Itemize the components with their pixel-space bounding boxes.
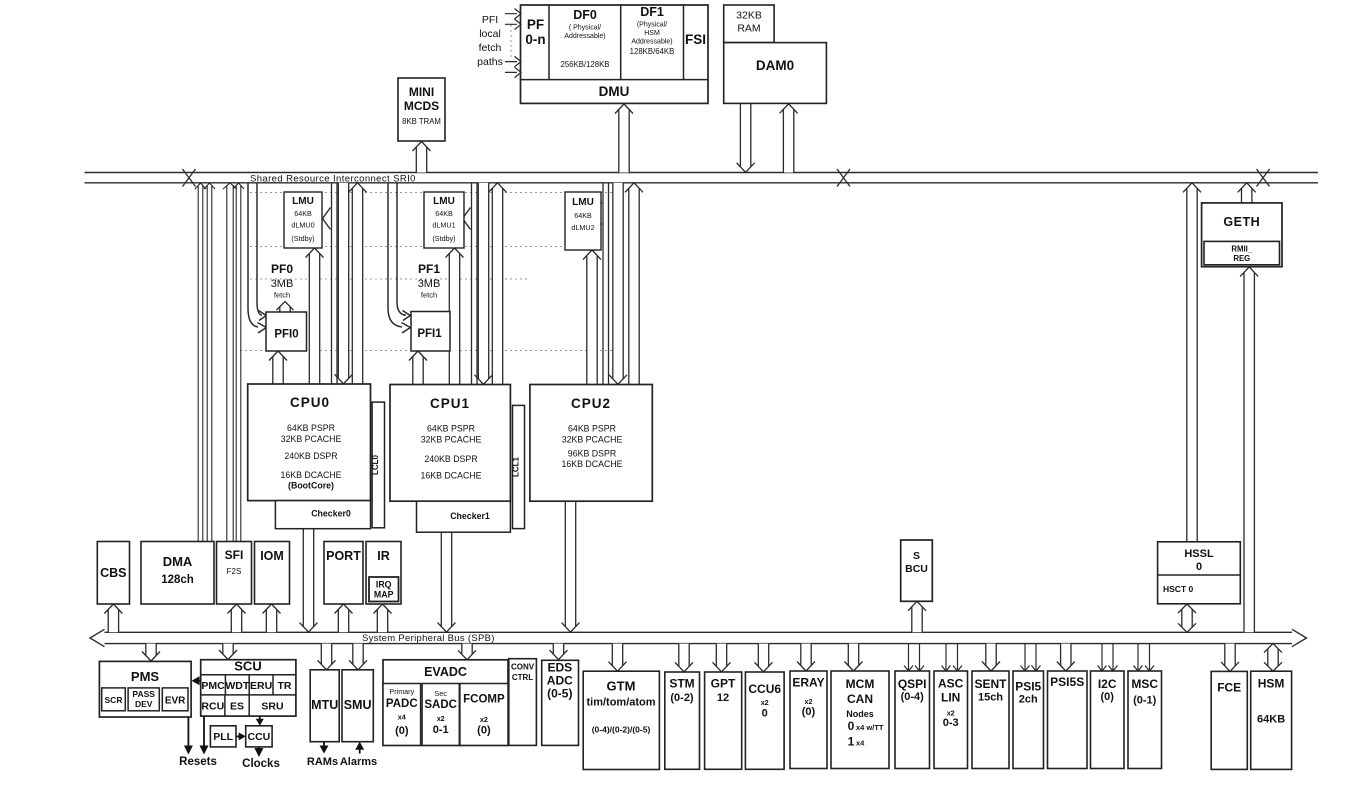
wire SRI to DMA b: [204, 183, 215, 543]
wire SPB to ASCLIN b: [953, 644, 962, 671]
svg-text:64KB: 64KB: [294, 209, 312, 218]
block SADC: [422, 684, 459, 746]
wire SRI to DMA a: [195, 183, 206, 543]
svg-text:16KB DCACHE: 16KB DCACHE: [420, 471, 481, 481]
svg-text:ERU: ERU: [250, 680, 272, 692]
svg-text:CCU6: CCU6: [748, 682, 781, 696]
svg-text:64KB: 64KB: [1257, 714, 1285, 726]
svg-text:WDT: WDT: [225, 680, 249, 692]
svg-text:HSM: HSM: [644, 30, 660, 37]
svg-text:32KB: 32KB: [736, 10, 762, 22]
svg-text:local: local: [479, 28, 501, 40]
svg-text:tim/tom/atom: tim/tom/atom: [586, 697, 655, 709]
svg-text:2ch: 2ch: [1019, 694, 1038, 706]
wire SRI to DAM0 (up): [780, 104, 798, 173]
svg-text:(0-1): (0-1): [1133, 695, 1157, 707]
bus crossing X left: [183, 169, 196, 187]
block ASCLIN: [934, 671, 968, 769]
bus SPB System Peripheral Bus: [90, 629, 1307, 646]
svg-text:Primary: Primary: [389, 687, 414, 696]
wire SPB to IOM: [263, 604, 281, 632]
block LMU2: [565, 192, 601, 250]
block IRQ MAP: [369, 577, 399, 602]
block QSPI: [895, 671, 930, 769]
dotted line LMU bottom: [250, 246, 565, 248]
svg-text:CBS: CBS: [100, 566, 126, 580]
svg-text:MINI: MINI: [409, 85, 434, 99]
wire SRI-LMU0 stub to CPU0: [332, 183, 338, 384]
svg-text:SENT: SENT: [974, 677, 1007, 691]
wire CPU1 to SRI (up): [489, 183, 507, 385]
svg-text:LIN: LIN: [941, 691, 960, 705]
svg-text:240KB DSPR: 240KB DSPR: [284, 451, 337, 461]
svg-text:MCDS: MCDS: [404, 99, 439, 113]
svg-text:LMU: LMU: [433, 196, 455, 207]
svg-text:0: 0: [848, 719, 855, 733]
block PADC: [383, 684, 421, 746]
wire SPB to SMU: [349, 644, 367, 670]
wire SPB to SCU: [219, 644, 237, 660]
block GPT12: [705, 672, 742, 769]
svg-text:64KB PSPR: 64KB PSPR: [427, 424, 475, 434]
wire SRI to CPU1 (down): [475, 183, 493, 384]
wire DAM0 to SRI (down): [737, 104, 755, 173]
svg-text:S: S: [913, 550, 920, 562]
svg-text:CPU1: CPU1: [430, 396, 470, 411]
svg-text:(Stdby): (Stdby): [432, 234, 455, 243]
block EDS ADC: [542, 660, 579, 745]
svg-text:PF0: PF0: [271, 262, 293, 276]
svg-text:CONV: CONV: [511, 663, 535, 672]
block SMU: [342, 670, 373, 742]
arrow Alarms SMU: [359, 748, 361, 754]
svg-text:CTRL: CTRL: [512, 673, 533, 682]
wire HSCT to SPB (double): [1178, 604, 1196, 632]
svg-text:EDS: EDS: [547, 661, 572, 675]
svg-text:FSI: FSI: [685, 32, 706, 47]
svg-text:PORT: PORT: [326, 549, 361, 563]
wire SRI to PFI0 (curved): [248, 183, 262, 327]
block PFI1: [411, 312, 450, 352]
block CONV CTRL: [509, 659, 537, 746]
svg-text:HSCT 0: HSCT 0: [1163, 584, 1194, 594]
wire SPB to I2C a: [1098, 644, 1107, 671]
svg-text:x4 w/TT: x4 w/TT: [856, 723, 884, 732]
arrow RCU resets: [203, 716, 205, 747]
wire SRI to PFI1 (curved): [388, 183, 406, 327]
block HSSL 0: [1158, 542, 1241, 604]
svg-text:(Stdby): (Stdby): [291, 234, 314, 243]
svg-text:PSI5S: PSI5S: [1050, 675, 1084, 689]
wire SPB to FCE: [1221, 644, 1239, 672]
svg-text:FCOMP: FCOMP: [463, 694, 505, 706]
svg-text:SCU: SCU: [234, 659, 261, 674]
wire stub arrow into LMU2: [594, 203, 602, 225]
svg-text:ES: ES: [230, 701, 244, 713]
wire SPB to IR: [374, 604, 392, 632]
svg-text:32KB PCACHE: 32KB PCACHE: [562, 435, 623, 445]
dotted line PFI bottom: [240, 350, 612, 352]
wire HSSL to SRI: [1183, 183, 1201, 542]
svg-text:DAM0: DAM0: [756, 58, 794, 73]
wire SPB to QSPI a: [904, 644, 913, 671]
svg-text:(0-2): (0-2): [670, 692, 694, 704]
dotted line PF row: [250, 278, 530, 280]
svg-text:LMU: LMU: [572, 197, 594, 208]
svg-text:0-n: 0-n: [525, 32, 545, 47]
svg-text:REG: REG: [1233, 254, 1250, 263]
svg-text:PF: PF: [527, 17, 544, 32]
svg-text:SRU: SRU: [261, 701, 283, 713]
svg-text:GETH: GETH: [1223, 215, 1260, 229]
wire SPB to EVADC: [458, 644, 476, 660]
block PMS: [99, 661, 191, 717]
svg-text:DF0: DF0: [573, 8, 597, 22]
svg-text:Sec: Sec: [435, 689, 448, 698]
wire PFI local fetch arrow 2: [505, 19, 521, 29]
svg-text:PMC: PMC: [201, 680, 225, 692]
wire SPB to CCU6: [755, 644, 773, 672]
svg-text:x2: x2: [437, 714, 445, 723]
svg-text:F2S: F2S: [227, 567, 242, 576]
svg-text:Shared Resource Interconnect: Shared Resource Interconnect SRI0: [250, 173, 416, 184]
wire SPB to HSM (double): [1264, 644, 1282, 672]
svg-text:MTU: MTU: [311, 698, 338, 712]
block PSI5: [1013, 671, 1044, 769]
svg-text:LCL1: LCL1: [512, 456, 521, 477]
svg-text:TR: TR: [278, 680, 292, 692]
wire SPB to GETH: [1240, 267, 1258, 632]
svg-text:fetch: fetch: [274, 291, 290, 300]
block LMU0: [284, 192, 322, 248]
svg-text:fetch: fetch: [421, 291, 437, 300]
svg-text:PFI: PFI: [482, 14, 498, 26]
wire SPB to PSI5 a: [1021, 644, 1030, 671]
svg-text:BCU: BCU: [905, 563, 928, 575]
svg-text:Addressable): Addressable): [631, 39, 672, 46]
svg-text:12: 12: [717, 692, 729, 704]
svg-text:32KB PCACHE: 32KB PCACHE: [421, 435, 482, 445]
wire DMU to SRI: [615, 104, 633, 173]
svg-text:SMU: SMU: [344, 698, 372, 712]
svg-text:(0-4)/(0-2)/(0-5): (0-4)/(0-2)/(0-5): [592, 725, 651, 735]
svg-text:MSC: MSC: [1131, 677, 1158, 691]
svg-text:SFI: SFI: [225, 548, 244, 562]
wire LMU0 to CPU0: [306, 248, 324, 384]
block 32KB RAM: [724, 5, 774, 43]
wire SPB to MTU: [318, 644, 336, 670]
svg-text:16KB DCACHE: 16KB DCACHE: [280, 470, 341, 480]
svg-text:( Physical/: ( Physical/: [569, 25, 601, 32]
block ERAY: [790, 671, 827, 769]
wire CPU0 to SRI (up): [349, 183, 367, 384]
arrow CCU clocks: [258, 747, 260, 750]
wire CPU1 to PFI1: [409, 351, 427, 385]
svg-text:FCE: FCE: [1217, 681, 1241, 695]
wire stub arrow into LMU1: [463, 208, 471, 230]
svg-text:ERAY: ERAY: [792, 676, 824, 690]
block HSM: [1251, 671, 1292, 769]
svg-text:0-1: 0-1: [433, 724, 449, 736]
svg-text:8KB TRAM: 8KB TRAM: [402, 117, 441, 126]
block DMU outer: [521, 5, 709, 103]
wire SPB to MCM CAN: [845, 644, 863, 671]
svg-text:Addressable): Addressable): [564, 33, 605, 40]
block FCE: [1211, 671, 1247, 769]
wire SPB to CBS: [104, 604, 122, 632]
wire SPB to GPT: [713, 644, 731, 672]
svg-text:PMS: PMS: [131, 669, 160, 684]
block Checker0: [275, 501, 370, 529]
svg-text:IRQ: IRQ: [376, 580, 392, 590]
svg-text:0: 0: [1196, 561, 1202, 573]
block MINI MCDS: [398, 78, 445, 141]
svg-text:PADC: PADC: [386, 698, 418, 710]
wire stub arrow into LMU0: [323, 208, 331, 230]
block IR: [366, 542, 401, 605]
wire SPB to MSC b: [1145, 644, 1154, 671]
wire SPB to MSC a: [1134, 644, 1143, 671]
svg-text:(0): (0): [477, 725, 491, 737]
svg-text:x2: x2: [761, 698, 769, 707]
svg-text:IOM: IOM: [260, 549, 284, 563]
wire CPU2 to SPB: [562, 501, 580, 632]
svg-text:DEV: DEV: [135, 699, 153, 709]
svg-text:256KB/128KB: 256KB/128KB: [561, 60, 610, 69]
block STM: [665, 672, 700, 769]
wire SPB to STM: [675, 644, 693, 672]
block CPU1: [390, 385, 510, 502]
block RMII REG sub-box: [1204, 241, 1280, 264]
wire CPU0 to PFI0: [269, 351, 287, 384]
svg-text:EVADC: EVADC: [424, 665, 467, 679]
svg-text:GPT: GPT: [711, 677, 736, 691]
wire Checker0 to SPB: [300, 529, 318, 632]
arrow MTU RAMs: [323, 742, 325, 748]
svg-text:Checker0: Checker0: [311, 509, 351, 519]
block EVR: [162, 688, 188, 711]
svg-text:fetch: fetch: [479, 42, 502, 54]
wire PFI0 fetch arrow: [277, 302, 294, 314]
svg-text:dLMU1: dLMU1: [432, 221, 455, 230]
svg-text:EVR: EVR: [165, 696, 186, 707]
block SENT: [972, 671, 1009, 769]
block LMU1: [424, 192, 464, 248]
arrow SCU to PMS: [198, 680, 201, 682]
wire SRI-LMU2 stub to CPU2: [603, 183, 609, 384]
block Checker1: [417, 501, 511, 532]
block PASS DEV: [128, 688, 159, 711]
wire SPB to I2C b: [1109, 644, 1118, 671]
svg-text:(0): (0): [1100, 691, 1114, 703]
wire SRI to SFI a: [223, 183, 237, 544]
svg-text:DF1: DF1: [640, 5, 664, 19]
block CPU2: [530, 385, 652, 502]
svg-text:Clocks: Clocks: [242, 758, 280, 770]
svg-text:(0-5): (0-5): [547, 687, 572, 701]
svg-text:ADC: ADC: [547, 674, 573, 688]
wire SRI to SFI b: [233, 183, 244, 544]
svg-text:LMU: LMU: [292, 196, 314, 207]
wire SRI to CPU2 (down): [609, 183, 627, 384]
dotted line PFI fetch path: [510, 25, 512, 58]
wire MINI MCDS to SRI: [413, 142, 431, 173]
block SFI: [217, 542, 252, 605]
svg-text:DMU: DMU: [599, 84, 630, 99]
svg-text:System Peripheral Bus (SPB): System Peripheral Bus (SPB): [362, 633, 495, 644]
svg-text:PFI0: PFI0: [274, 329, 298, 341]
svg-text:(BootCore): (BootCore): [288, 481, 334, 491]
block GTM: [583, 671, 659, 769]
svg-text:PASS: PASS: [132, 689, 155, 699]
block PSI5S: [1048, 671, 1088, 769]
svg-text:(0): (0): [395, 725, 409, 737]
wire SPB to GTM: [609, 644, 627, 672]
wire SPB to SFI: [228, 604, 246, 632]
svg-text:paths: paths: [477, 56, 503, 68]
svg-text:64KB PSPR: 64KB PSPR: [568, 424, 616, 434]
svg-text:PLL: PLL: [213, 731, 233, 743]
svg-text:RAM: RAM: [737, 23, 760, 35]
bus crossing X mid: [837, 169, 850, 187]
block MSC: [1128, 671, 1162, 769]
bus crossing X right: [1257, 169, 1270, 187]
wire SPB to ASCLIN a: [942, 644, 951, 671]
svg-text:128KB/64KB: 128KB/64KB: [630, 47, 675, 56]
svg-text:(0-4): (0-4): [901, 691, 925, 703]
svg-text:PFI1: PFI1: [417, 328, 442, 340]
block CCU: [246, 726, 272, 747]
wire Checker1 to SPB: [438, 531, 456, 633]
svg-text:dLMU0: dLMU0: [291, 221, 314, 230]
block PLL: [210, 726, 236, 747]
svg-text:0: 0: [762, 708, 768, 720]
wire SPB to PSI5 b: [1032, 644, 1041, 671]
block MCM CAN: [831, 671, 889, 769]
block GETH: [1202, 203, 1282, 267]
svg-text:0-3: 0-3: [943, 717, 959, 729]
wire SPB to EDS ADC: [550, 644, 568, 660]
svg-text:(Physical/: (Physical/: [637, 22, 667, 29]
wire SRI to CPU0 (down): [335, 183, 353, 384]
svg-text:CPU2: CPU2: [571, 396, 611, 411]
wire SRI-LMU1 stub to CPU1: [472, 183, 478, 384]
block FCOMP: [460, 684, 508, 746]
wire PFI local fetch arrow 1: [505, 9, 521, 19]
svg-text:64KB: 64KB: [574, 211, 592, 220]
svg-text:RAMs: RAMs: [307, 756, 338, 768]
svg-text:3MB: 3MB: [271, 278, 294, 290]
wire LMU1 to CPU1: [446, 248, 464, 385]
block S BCU: [901, 540, 933, 601]
svg-text:240KB DSPR: 240KB DSPR: [424, 454, 477, 464]
svg-text:64KB PSPR: 64KB PSPR: [287, 423, 335, 433]
svg-text:3MB: 3MB: [418, 278, 441, 290]
block PFI0: [266, 312, 307, 351]
svg-text:SCR: SCR: [105, 695, 123, 705]
svg-text:Alarms: Alarms: [340, 756, 377, 768]
svg-text:CCU: CCU: [248, 731, 271, 743]
svg-text:Nodes: Nodes: [846, 709, 874, 719]
svg-text:HSSL: HSSL: [1184, 548, 1214, 560]
svg-text:15ch: 15ch: [978, 692, 1003, 704]
arrow PLL to CCU: [236, 735, 241, 737]
wire SPB to PORT: [335, 604, 353, 632]
arrow SRU to CCU: [259, 716, 261, 721]
block CPU0: [248, 384, 371, 501]
wire GETH to SRI: [1238, 183, 1256, 203]
wire PFI local fetch arrow 3: [505, 56, 521, 66]
svg-text:PSI5: PSI5: [1015, 680, 1041, 694]
svg-text:LCL0: LCL0: [371, 454, 380, 475]
block PORT: [324, 542, 363, 605]
svg-text:DMA: DMA: [163, 554, 193, 569]
svg-text:128ch: 128ch: [161, 574, 194, 586]
svg-text:x2: x2: [805, 697, 813, 706]
svg-text:PF1: PF1: [418, 262, 440, 276]
bus SRI0 Shared Resource Interconnect: [85, 173, 1319, 183]
svg-text:x2: x2: [480, 715, 488, 724]
wire LMU2 to CPU2: [583, 250, 601, 385]
wire SPB to PSI5S: [1057, 644, 1075, 671]
svg-text:x4: x4: [398, 713, 406, 722]
block DMU internal dividers: [521, 5, 709, 80]
block EVADC: [383, 660, 508, 746]
block CCU6: [745, 672, 784, 769]
block I2C: [1091, 671, 1125, 769]
wire SPB to QSPI b: [915, 644, 924, 671]
svg-text:RMII_: RMII_: [1231, 245, 1252, 254]
wire SPB to SENT: [982, 644, 1000, 671]
svg-text:Checker1: Checker1: [450, 511, 490, 521]
svg-text:MAP: MAP: [374, 590, 394, 600]
block CBS: [97, 542, 129, 605]
svg-text:Resets: Resets: [179, 756, 217, 768]
block DMA: [141, 542, 214, 605]
svg-text:1: 1: [848, 735, 855, 749]
svg-text:(0): (0): [802, 706, 816, 718]
svg-text:QSPI: QSPI: [898, 677, 927, 691]
block DAM0: [724, 43, 827, 104]
svg-text:HSM: HSM: [1258, 677, 1285, 691]
block LCL0: [372, 402, 384, 528]
arrow PMS resets: [187, 717, 189, 748]
svg-text:dLMU2: dLMU2: [571, 223, 594, 232]
svg-text:ASC: ASC: [938, 677, 964, 691]
svg-text:SADC: SADC: [424, 699, 457, 711]
divider HSSL/HSCT: [1158, 574, 1241, 576]
dotted line LMU top: [250, 192, 612, 194]
block MTU: [310, 670, 339, 742]
wire SPB to ERAY: [797, 644, 815, 671]
svg-text:GTM: GTM: [607, 679, 636, 694]
svg-text:x4: x4: [856, 739, 865, 748]
svg-text:MCM: MCM: [846, 677, 875, 691]
wire PFI local fetch arrow 4: [505, 67, 521, 77]
block IOM: [255, 542, 290, 605]
svg-text:32KB PCACHE: 32KB PCACHE: [281, 434, 342, 444]
svg-text:CPU0: CPU0: [290, 395, 330, 410]
wire SPB to PMS: [142, 644, 160, 661]
wire SPB to SBCU: [908, 601, 926, 632]
svg-text:IR: IR: [377, 549, 390, 563]
grid SCU cells: [201, 675, 296, 716]
wire CPU2 to SRI (up): [625, 183, 643, 385]
block SCU: [201, 660, 296, 716]
block LCL1: [513, 405, 525, 528]
svg-text:STM: STM: [669, 677, 694, 691]
svg-text:I2C: I2C: [1098, 677, 1117, 691]
